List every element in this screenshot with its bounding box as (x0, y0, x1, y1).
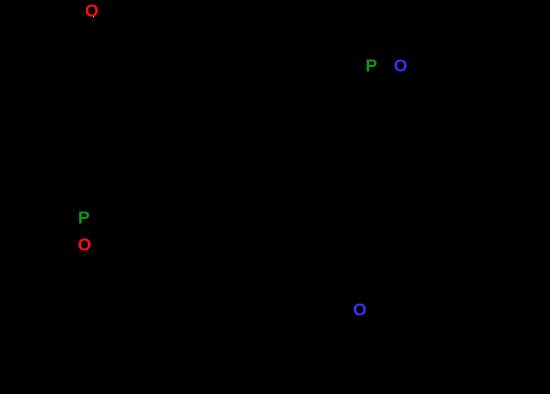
atom P2 phosphorus (green), mid-left (78, 209, 90, 227)
atom O1 ketone oxygen (red), top-left (85, 3, 99, 21)
bond junction dot at O1 (light pink artifact) (93, 16, 94, 17)
atom O4 oxygen (blue), bottom-center (353, 302, 367, 320)
atom O2 oxygen (blue), top-right next to P1 (394, 57, 408, 75)
bond junction dot at O4 (magenta artifact) (364, 312, 365, 313)
atom O3 oxygen (red), below P2 (78, 236, 92, 254)
atom P1 phosphorus (green), top-right (366, 57, 378, 75)
